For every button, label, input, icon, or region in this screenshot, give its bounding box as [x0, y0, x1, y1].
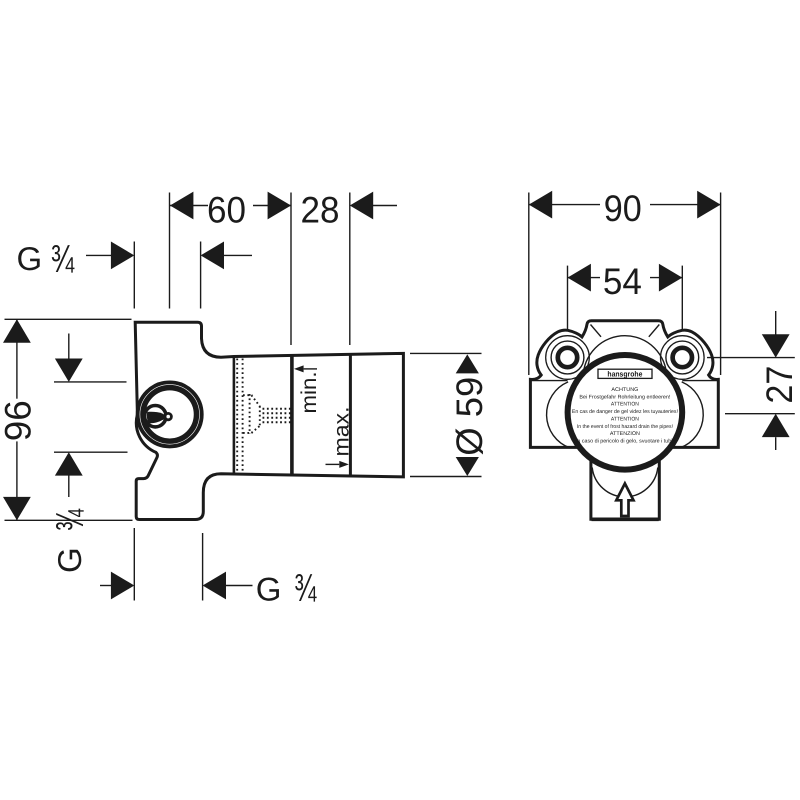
- dimension 60: extension line left: [169, 193, 171, 309]
- right view: side bore petal arc left: [547, 382, 570, 448]
- svg-text:ACHTUNG: ACHTUNG: [611, 387, 638, 393]
- right view: screw boss halo right: [661, 336, 705, 380]
- svg-text:In caso di pericolo di gelo, s: In caso di pericolo di gelo, svuotare i …: [576, 439, 674, 445]
- left view: min depth line: [290, 355, 294, 475]
- dimension 28: tail line: [373, 205, 397, 207]
- svg-text:G: G: [256, 571, 282, 608]
- dimension G3/4 side port: arrowheads: [55, 359, 83, 476]
- dimension G3/4 bottom: extension line left: [133, 528, 135, 601]
- svg-text:Bei Frostgefahr Rohrleitung en: Bei Frostgefahr Rohrleitung entleeren!: [579, 394, 670, 400]
- svg-text:96: 96: [0, 400, 39, 441]
- right view: wing top line left: [530, 380, 567, 382]
- hansgrohe logo box: [598, 369, 652, 378]
- dimension 54: extension line right: [681, 266, 683, 331]
- right view: front face ring: [568, 355, 683, 470]
- dimension G3/4 bottom: arrowheads: [111, 572, 226, 600]
- dimension G3/4 bottom: extension line right: [202, 533, 204, 601]
- right view: plateau ridge diagonal left: [591, 325, 602, 337]
- svg-text:max.: max.: [330, 407, 354, 457]
- svg-text:¾: ¾: [49, 509, 92, 531]
- left view: hidden valve seat bracket (dotted): [243, 394, 260, 434]
- dimension dia59: extension line top: [410, 352, 482, 354]
- right view: side bore petal arc right: [680, 382, 703, 448]
- dimension 90: extension line left: [528, 193, 530, 376]
- dimension 90: arrowheads: [529, 191, 721, 219]
- left view: barrel left face edge: [233, 357, 236, 474]
- dimension 96: dimension line segments: [16, 319, 18, 520]
- dimension 96: arrowheads: [3, 319, 31, 520]
- dimension 60: arrowheads: [170, 192, 291, 220]
- dimension G3/4 top: label: [17, 238, 75, 281]
- svg-text:90: 90: [604, 188, 642, 229]
- right view: wing top line right: [682, 380, 718, 382]
- right view: bottom port lower edge (bold): [592, 517, 659, 521]
- svg-text:In the event of frost hazard d: In the event of frost hazard drain the p…: [577, 424, 673, 430]
- left view: valve stem wedge: [147, 412, 166, 424]
- svg-text:G: G: [17, 240, 43, 277]
- dimension 60: line segments: [170, 205, 291, 207]
- left view: max depth line: [349, 355, 352, 476]
- right view: screw boss halo left: [546, 336, 590, 380]
- dimension G3/4 top: leader line right: [224, 254, 253, 256]
- dimension dia59: arrowheads: [456, 354, 479, 476]
- svg-text:min.: min.: [297, 372, 321, 414]
- dimension G3/4 top: leader line left: [86, 254, 111, 256]
- svg-text:¾: ¾: [51, 238, 75, 281]
- right view: inner arch circle: [583, 336, 667, 420]
- max pointer arrowhead: [339, 461, 349, 468]
- dimension 90: extension line right: [720, 193, 722, 376]
- dimension 27: upper stem: [775, 311, 777, 335]
- frost warning text block: [572, 387, 678, 445]
- left view: valve stem pivot ring: [165, 413, 171, 419]
- dimension G3/4 bottom: leader line right: [226, 585, 253, 587]
- dimension 90: line segments: [529, 204, 721, 206]
- svg-text:54: 54: [603, 261, 642, 302]
- right view: screw boss right inner ring: [673, 348, 692, 367]
- dimension 96: extension line bottom: [5, 519, 133, 521]
- dimension 54: line segments: [568, 277, 683, 279]
- left view: hidden spindle channel rows (dotted): [263, 409, 292, 423]
- dimension 28: arrowhead: [350, 192, 373, 220]
- dimension G3/4 side port: label (rotated): [49, 509, 92, 573]
- svg-text:ATTENTION: ATTENTION: [611, 402, 639, 408]
- min pointer tail: [304, 368, 317, 370]
- max pointer tail: [326, 463, 340, 465]
- right view: screw boss left inner ring: [558, 348, 577, 367]
- left view: valve stem circle: [145, 406, 166, 427]
- dimension G3/4 bottom: label: [256, 567, 317, 610]
- dimension G3/4 side port: lower stem: [68, 472, 70, 497]
- dimension 54: extension line left: [567, 266, 569, 331]
- svg-text:ATTENZION: ATTENZION: [610, 431, 640, 437]
- dimension G3/4 bottom: leader line left: [100, 585, 111, 587]
- svg-text:G: G: [51, 547, 88, 573]
- svg-text:60: 60: [207, 189, 246, 230]
- left view: hidden thread lines (dotted): [237, 359, 242, 472]
- left view: side port ring highlight: [140, 385, 200, 445]
- right view: valve body silhouette (plateau, screw ears, wings, bottom port): [530, 321, 718, 520]
- flow direction arrow in bottom port: [616, 484, 633, 517]
- dimension G3/4 side port: upper stem: [68, 334, 70, 363]
- svg-text:27: 27: [759, 366, 800, 404]
- svg-text:Ø 59: Ø 59: [449, 377, 490, 456]
- svg-text:ATTENTION: ATTENTION: [611, 417, 639, 423]
- dimension 28: extension line right: [349, 193, 351, 346]
- svg-text:28: 28: [301, 189, 340, 230]
- right view: screw boss left outer ring: [551, 341, 584, 374]
- dimension G3/4 top: extension line right: [200, 242, 202, 309]
- svg-text:hansgrohe: hansgrohe: [607, 370, 642, 379]
- svg-text:¾: ¾: [294, 567, 316, 610]
- dimension 27: extension line bottom: [725, 413, 795, 415]
- dimension 54: arrowheads: [568, 264, 683, 292]
- right view: screw boss right outer ring: [666, 341, 699, 374]
- dimension dia59: extension line bottom: [410, 476, 482, 478]
- left view: side port boss ring: [141, 385, 199, 443]
- dimension G3/4 side port: extension line top: [54, 381, 127, 383]
- dimension G3/4 top: extension line left: [133, 242, 135, 309]
- dimension 27: lower stem: [775, 437, 777, 450]
- dimension 27: extension line top: [707, 357, 795, 359]
- dimension 96: extension line top: [5, 318, 132, 320]
- right view: bottom port bore arc: [592, 468, 658, 497]
- dimension 27: arrowheads: [762, 334, 790, 437]
- dimension G3/4 top: arrowheads: [111, 242, 224, 270]
- svg-text:En cas de danger de gel videz: En cas de danger de gel videz les tuyaut…: [572, 409, 678, 415]
- left view: valve body silhouette (flange + tapered barrel): [135, 322, 403, 519]
- dimension 60/28: shared extension line: [290, 193, 292, 346]
- min pointer arrowhead: [294, 365, 304, 372]
- right view: plateau ridge diagonal right: [649, 325, 660, 337]
- dimension G3/4 side port: extension line bottom: [54, 451, 128, 453]
